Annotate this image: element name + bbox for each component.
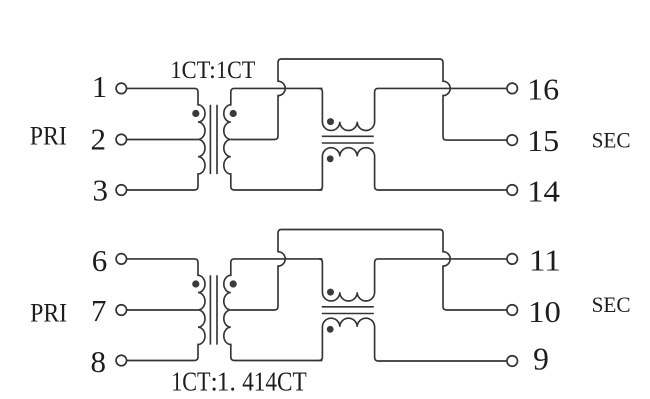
- svg-text:PRI: PRI: [30, 297, 67, 327]
- T1 core line right: [216, 105, 218, 174]
- svg-text:3: 3: [93, 173, 109, 208]
- pin 2 terminal: [116, 134, 127, 145]
- label 1CT:1CT: [170, 57, 255, 84]
- svg-text:1CT: 1CT: [216, 57, 255, 84]
- wire T2 center tap to pin 10 (over-bus with two hops): [231, 230, 508, 311]
- svg-text:414CT: 414CT: [242, 367, 307, 397]
- svg-text:1CT: 1CT: [171, 367, 211, 397]
- svg-text:14: 14: [527, 174, 560, 209]
- L1 core line lower: [322, 142, 374, 144]
- pin 11 terminal: [507, 254, 518, 265]
- svg-text:1CT: 1CT: [170, 57, 210, 84]
- L2 core line upper: [322, 306, 374, 308]
- pin 16 terminal: [507, 83, 518, 94]
- svg-text:1.: 1.: [217, 367, 236, 397]
- choke L1 winding A (top) with wire to pin 16: [319, 88, 507, 130]
- svg-text:11: 11: [529, 242, 561, 277]
- svg-text::: :: [209, 57, 216, 84]
- svg-text:6: 6: [92, 243, 108, 278]
- svg-text:9: 9: [533, 342, 549, 377]
- svg-text:SEC: SEC: [592, 128, 631, 153]
- pin 14 terminal: [507, 185, 518, 196]
- L2 phase dot winding B: [327, 326, 334, 333]
- choke L1 winding B (bottom) with wire to pin 14: [319, 148, 507, 190]
- pin 7 terminal: [116, 305, 127, 316]
- pin 9 terminal: [507, 356, 518, 367]
- transformer T1 primary winding (pins 1-3 side): [126, 88, 205, 190]
- L2 core line lower: [322, 313, 374, 315]
- pin 3 terminal: [116, 185, 127, 196]
- pin 6 terminal: [116, 254, 127, 265]
- T2 phase dot secondary: [230, 280, 237, 287]
- wire pin2 to T1 primary center tap: [126, 139, 198, 141]
- transformer T2 secondary winding: [224, 259, 323, 361]
- T2 core line left: [209, 275, 211, 344]
- choke L2 winding B (bottom) with wire to pin 9: [319, 318, 507, 361]
- T1 phase dot secondary: [230, 110, 237, 117]
- transformer T1 secondary winding: [224, 88, 323, 190]
- svg-text:SEC: SEC: [592, 292, 631, 317]
- T2 core line right: [216, 275, 218, 344]
- T2 phase dot primary: [192, 280, 199, 287]
- svg-text:15: 15: [527, 123, 559, 158]
- wire T1 center tap to pin 15 (over-bus with two hops): [231, 59, 508, 140]
- L1 phase dot winding A: [327, 118, 334, 125]
- svg-text:8: 8: [91, 344, 107, 379]
- label 1CT:1.414CT: [171, 367, 307, 397]
- pin 8 terminal: [116, 355, 127, 366]
- choke L2 winding A (top) with wire to pin 11: [319, 259, 507, 301]
- L2 phase dot winding A: [327, 289, 334, 296]
- transformer T2 primary winding (pins 6-8 side): [126, 259, 205, 361]
- T1 core line left: [209, 105, 211, 174]
- svg-text:PRI: PRI: [30, 120, 67, 150]
- T1 phase dot primary: [192, 110, 199, 117]
- svg-text:2: 2: [91, 122, 107, 157]
- wire pin7 to T2 primary center tap: [126, 309, 198, 311]
- pin 1 terminal: [116, 83, 127, 94]
- svg-text:16: 16: [527, 71, 559, 106]
- L1 core line upper: [322, 135, 374, 137]
- L1 phase dot winding B: [327, 155, 334, 162]
- pin 10 terminal: [507, 305, 518, 316]
- svg-text:1: 1: [92, 69, 108, 104]
- svg-text:10: 10: [528, 294, 561, 329]
- pin 15 terminal: [507, 135, 518, 146]
- svg-text:7: 7: [91, 293, 107, 328]
